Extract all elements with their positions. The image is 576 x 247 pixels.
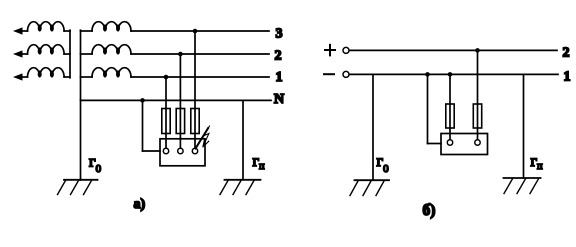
ground electrode rn (circuit b) — [504, 178, 541, 194]
junction: line 1 tap for fuse FU4 — [448, 72, 453, 77]
wire: secondary bus to phase-2 coil — [81, 53, 93, 55]
wire: drop from line 1 to repeated ground rn (circuit b) — [523, 74, 525, 178]
wire: drop from line 3 to fuse FU3 — [194, 31, 196, 109]
wire: DC line 1 (-) — [349, 73, 558, 75]
ground electrode r0 (circuit b) — [350, 180, 389, 195]
primary winding phase C arrow — [13, 73, 23, 80]
wire: phase B arrow shaft — [20, 53, 28, 55]
junction: line 2 tap for fuse FU5 — [475, 48, 480, 53]
primary winding phase A coil loop 2 — [50, 25, 53, 31]
wire: phase B coil to primary bus — [64, 53, 70, 55]
primary winding phase A arrow (incoming line) — [13, 27, 23, 34]
secondary winding phase 1 coil loop 1 — [104, 25, 107, 31]
wire: phase A arrow shaft — [20, 30, 28, 32]
ground electrode r0 (circuit a) — [58, 180, 98, 195]
secondary winding phase 2 coil loop 2 — [117, 48, 120, 54]
primary winding phase A coil loop 1 — [38, 25, 41, 31]
primary winding phase C coil loop 1 — [38, 71, 41, 77]
wire: secondary bus to phase-1 coil — [81, 30, 93, 32]
terminal 1 of DC load — [447, 140, 452, 145]
secondary winding phase 1 coil — [92, 22, 131, 31]
svg-text:1: 1 — [564, 70, 571, 85]
secondary winding phase 3 coil loop 2 — [117, 71, 120, 77]
svg-text:б): б) — [423, 202, 436, 219]
ground electrode rn (circuit a) — [220, 180, 261, 195]
wire: DC line 2 (+) — [349, 49, 557, 51]
wire: secondary bus to phase-3 coil — [81, 76, 93, 78]
primary winding phase B coil loop 1 — [38, 48, 41, 54]
svg-text:гп: гп — [253, 153, 266, 172]
primary winding phase C coil — [28, 68, 65, 77]
minus sign — [324, 73, 334, 75]
junction: line 1 tap — [164, 75, 169, 80]
svg-text:гп: гп — [531, 153, 544, 172]
svg-text:N: N — [274, 92, 284, 107]
fuse FU5 element wire — [477, 104, 479, 140]
secondary winding phase 3 coil loop 1 — [104, 71, 107, 77]
fuse FU3 — [191, 109, 199, 134]
primary winding phase B arrow — [13, 50, 23, 57]
fuse FU1 element wire — [165, 109, 167, 149]
svg-text:а): а) — [134, 197, 146, 212]
terminal 2 of DC load — [475, 140, 480, 145]
svg-text:3: 3 — [276, 27, 283, 42]
svg-text:1: 1 — [276, 70, 283, 85]
secondary winding phase 1 coil loop 2 — [117, 25, 120, 31]
fuse FU5 — [473, 104, 481, 128]
wire: case grounding conductor (vertical) — [142, 100, 144, 151]
svg-text:2: 2 — [275, 49, 282, 64]
primary winding phase A coil — [28, 22, 65, 31]
fuse FU4 — [446, 104, 454, 128]
primary winding phase C coil loop 2 — [50, 71, 53, 77]
load appliance case (box) — [160, 139, 205, 166]
wire: phase A coil to primary bus — [64, 30, 70, 32]
wire: case grounding conductor (horizontal) — [143, 150, 161, 152]
terminal 2 of load — [178, 148, 183, 153]
breakdown fault slanted line at terminal 3 — [196, 128, 209, 148]
wire: case conductor horizontal — [428, 143, 442, 145]
primary winding phase B coil — [28, 45, 65, 54]
breakdown lightning arrow — [203, 126, 210, 147]
svg-text:2: 2 — [563, 46, 570, 61]
wire: neutral line N — [81, 99, 272, 101]
fuse FU2 — [176, 109, 184, 134]
svg-text:г0: г0 — [377, 153, 390, 175]
secondary winding phase 3 coil — [92, 68, 131, 77]
fuse FU1 — [162, 109, 170, 134]
terminal circle of + line — [343, 47, 349, 53]
wire: case conductor vertical — [427, 74, 429, 143]
plus sign — [325, 45, 335, 56]
junction: line 1 tap for case conductor — [425, 72, 430, 77]
secondary winding phase 2 coil loop 1 — [104, 48, 107, 54]
wire: phase C coil to primary bus — [64, 76, 70, 78]
terminal 1 of load — [163, 148, 168, 153]
wire: drop from line 1 to fuse FU1 — [165, 77, 167, 109]
wire: drop from line 2 through line 1 to fuse FU5 — [477, 50, 479, 104]
wire: primary star bus (vertical) — [69, 30, 71, 78]
primary winding phase B coil loop 2 — [50, 48, 53, 54]
fuse FU3 element wire — [194, 109, 196, 149]
DC load appliance case (box) — [441, 134, 488, 155]
wire: line 2 — [131, 53, 269, 55]
junction: line 3 tap — [193, 29, 198, 34]
junction: neutral tap for equipment case — [140, 98, 145, 103]
fuse FU2 element wire — [179, 109, 181, 149]
wire: neutral tap to repeated ground rn — [242, 100, 244, 179]
terminal circle of - line — [343, 71, 349, 77]
wire: phase C arrow shaft — [20, 76, 28, 78]
junction: line 2 tap — [178, 52, 183, 57]
wire: secondary star bus (vertical, goes to neutral/ground) — [80, 30, 82, 180]
wire: drop from line 2 to fuse FU2 — [179, 54, 181, 109]
wire: line 1 — [131, 76, 269, 78]
secondary winding phase 2 coil — [92, 45, 131, 54]
svg-text:г0: г0 — [89, 153, 102, 175]
wire: line 3 — [131, 30, 269, 32]
terminal 3 of load — [192, 148, 197, 153]
wire: drop from line 1 to fuse FU4 — [449, 74, 451, 104]
fuse FU4 element wire — [449, 104, 451, 140]
wire: drop from line 1 to working ground r0 — [372, 74, 374, 180]
